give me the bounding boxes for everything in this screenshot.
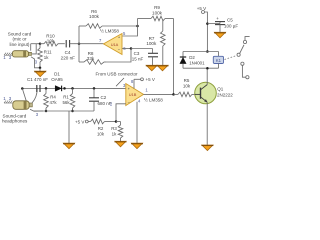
- svg-text:U1B: U1B: [129, 92, 137, 97]
- svg-text:100k: 100k: [146, 41, 157, 46]
- svg-text:D2: D2: [189, 55, 195, 60]
- leader line from label to wire: [116, 78, 124, 86]
- resistor R3: [116, 121, 121, 123]
- svg-text:R5: R5: [184, 78, 190, 83]
- resistor R8: [84, 60, 104, 65]
- svg-text:33k: 33k: [87, 56, 95, 61]
- resistor R10: [44, 41, 58, 46]
- connector J2 panel hatch: [4, 101, 12, 104]
- wire pin6 node down to R8 line: [106, 49, 131, 63]
- capacitor C1: [36, 85, 37, 92]
- wire bottom rail: [34, 110, 95, 112]
- capacitor C2: [93, 87, 96, 90]
- wire U1A pin 6 stub: [122, 48, 131, 50]
- node B junction dot: [78, 42, 81, 45]
- svg-text:D1: D1: [54, 72, 60, 77]
- junction dot bias node: [115, 120, 118, 123]
- svg-text:Q1: Q1: [217, 86, 224, 91]
- svg-text:C4: C4: [65, 50, 71, 55]
- resistor R9: [151, 16, 165, 21]
- junction dot below R11: [39, 67, 42, 70]
- junction dot R1 top: [71, 87, 74, 90]
- terminal circle +5V: [202, 11, 205, 14]
- wire node B up to R6: [78, 26, 80, 44]
- svg-text:C5: C5: [227, 18, 233, 23]
- svg-text:10k: 10k: [97, 132, 105, 137]
- op-amp U1A: [104, 34, 123, 55]
- wire J1 tip to node A: [32, 44, 36, 54]
- junction dot R1 bottom: [71, 110, 74, 113]
- svg-text:+5 V: +5 V: [197, 6, 206, 11]
- ground below R3: [115, 141, 126, 147]
- ground below U1B pin 4: [132, 143, 143, 149]
- wire Q1 emitter: [206, 102, 208, 145]
- ground below C3: [146, 65, 157, 71]
- svg-text:220 nF: 220 nF: [61, 56, 75, 61]
- resistor R2: [91, 119, 105, 124]
- svg-text:100k: 100k: [152, 10, 163, 15]
- svg-text:½ LM358: ½ LM358: [144, 96, 163, 102]
- svg-text:From USB connector: From USB connector: [95, 72, 138, 77]
- connector J1 panel hatch: [4, 53, 12, 56]
- wire J2 tip arc to rail: [32, 88, 37, 103]
- resistor R5: [174, 93, 179, 95]
- wire J2 sleeve down: [30, 109, 43, 111]
- svg-text:C1 470 nF: C1 470 nF: [27, 77, 48, 82]
- svg-text:+: +: [216, 16, 219, 21]
- junction dot relay top rail: [206, 50, 209, 53]
- svg-text:10k: 10k: [183, 83, 191, 88]
- node A junction dot: [39, 42, 42, 45]
- ground below R11: [39, 68, 41, 71]
- wire node to U1A pin 5: [122, 26, 137, 36]
- svg-text:C3: C3: [134, 51, 140, 56]
- op-amp U1B: [126, 84, 144, 106]
- connector J2 sound-card headphones jack: [13, 101, 33, 110]
- svg-text:C2: C2: [101, 95, 107, 100]
- svg-text:R4: R4: [50, 95, 56, 100]
- wire pin6 node to C3: [131, 48, 153, 50]
- resistor R7: [162, 20, 164, 32]
- transistor Q1: [195, 82, 217, 104]
- resistor R6: [86, 24, 102, 29]
- resistor R4: [44, 94, 49, 109]
- wire U1B pin 4 to ground: [136, 102, 138, 143]
- ground below R7: [157, 65, 168, 71]
- capacitor C5: [215, 21, 225, 23]
- wire main audio rail: [22, 87, 126, 89]
- wire J1 sleeve down: [31, 57, 40, 68]
- junction dot C5 branch: [206, 22, 209, 25]
- svg-text:15 nF: 15 nF: [132, 57, 144, 62]
- ground bottom-left: [68, 111, 70, 143]
- svg-text:R3: R3: [111, 126, 117, 131]
- wire J1 ring riser: [30, 44, 32, 51]
- relay switch arm: [237, 53, 240, 56]
- wire up to R9 line: [137, 19, 139, 27]
- diode D1: [55, 86, 61, 92]
- svg-text:1k: 1k: [44, 55, 49, 60]
- wire U1B output: [144, 93, 174, 95]
- wire U1B pin 8 to +5V: [133, 79, 135, 88]
- junction dot C1-R4: [45, 87, 48, 90]
- junction dot R4 bottom: [45, 110, 48, 113]
- wire +5V down: [205, 12, 208, 52]
- relay contact bottom: [241, 62, 244, 65]
- svg-text:1N4001: 1N4001: [189, 60, 205, 65]
- connector J1 sound-card mic/line input jack: [12, 51, 31, 57]
- svg-text:R2: R2: [98, 126, 104, 131]
- wire R9 right down to U1B output node: [173, 19, 175, 95]
- junction dot at R6/R9 node: [136, 25, 139, 28]
- junction dot pin6 node: [130, 47, 133, 50]
- svg-text:OA95: OA95: [51, 77, 63, 82]
- ground below Q1 emitter: [202, 145, 213, 151]
- svg-text:56k: 56k: [62, 100, 70, 105]
- svg-text:47k: 47k: [49, 100, 57, 105]
- relay mechanical dashed link: [225, 56, 237, 60]
- svg-text:100k: 100k: [89, 14, 100, 19]
- wire to C5: [207, 23, 220, 25]
- wire J2 ring diagonal: [22, 89, 26, 101]
- capacitor C3: [152, 49, 154, 54]
- svg-text:100 µF: 100 µF: [224, 23, 238, 28]
- ground below C5: [215, 32, 226, 38]
- wire relay top rail: [183, 51, 219, 53]
- svg-text:+5 V: +5 V: [75, 119, 84, 124]
- resistor R1: [70, 94, 75, 109]
- svg-text:2N2222: 2N2222: [217, 93, 233, 98]
- svg-text:+5 V: +5 V: [146, 77, 155, 82]
- svg-text:10k: 10k: [47, 38, 55, 43]
- capacitor C4: [65, 40, 67, 47]
- svg-text:headphones: headphones: [2, 119, 28, 124]
- svg-text:line input): line input): [10, 42, 30, 47]
- svg-text:K1: K1: [216, 58, 222, 63]
- svg-text:R1: R1: [63, 95, 69, 100]
- diode D2: [182, 52, 184, 57]
- junction dot after D1: [63, 87, 66, 90]
- svg-text:R7: R7: [149, 36, 155, 41]
- junction dot relay bottom rail: [206, 67, 209, 70]
- wire relay bottom rail: [183, 67, 219, 69]
- svg-text:½ LM358: ½ LM358: [100, 27, 119, 33]
- junction dot rail left: [21, 87, 24, 90]
- junction dot output node: [172, 93, 175, 96]
- relay contact top: [243, 40, 246, 43]
- resistor R11: [38, 48, 43, 62]
- svg-text:1k: 1k: [112, 132, 117, 137]
- wire U1B pin 2 stub: [116, 104, 126, 122]
- relay coil K1: [218, 52, 220, 57]
- wire Q1 collector: [206, 68, 208, 85]
